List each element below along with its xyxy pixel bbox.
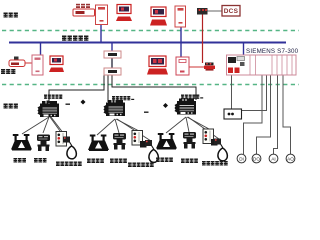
svg-text:DI: DI	[239, 156, 244, 161]
svg-text:SIEMENS S7-300: SIEMENS S7-300	[246, 48, 299, 55]
svg-text:AI: AI	[271, 156, 275, 161]
svg-text:AO: AO	[287, 156, 294, 161]
svg-text:DCS: DCS	[224, 8, 239, 15]
svg-text:DO: DO	[253, 156, 260, 161]
